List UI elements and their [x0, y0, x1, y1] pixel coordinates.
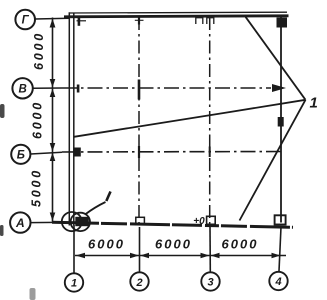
svg-text:Б: Б	[17, 150, 25, 162]
svg-text:Г: Г	[22, 15, 30, 27]
svg-text:4: 4	[274, 276, 281, 288]
svg-text:6000: 6000	[88, 237, 125, 252]
svg-text:6000: 6000	[32, 31, 46, 70]
svg-text:+0: +0	[193, 216, 205, 227]
svg-text:6000: 6000	[155, 237, 192, 252]
svg-text:1: 1	[71, 278, 77, 290]
svg-text:6000: 6000	[222, 237, 259, 252]
svg-text:6000: 6000	[31, 100, 45, 139]
svg-text:В: В	[18, 84, 26, 96]
svg-text:3: 3	[207, 277, 213, 289]
svg-text:1: 1	[310, 95, 318, 112]
svg-text:5000: 5000	[30, 168, 44, 207]
svg-text:2: 2	[135, 277, 142, 289]
svg-text:А: А	[15, 216, 25, 230]
